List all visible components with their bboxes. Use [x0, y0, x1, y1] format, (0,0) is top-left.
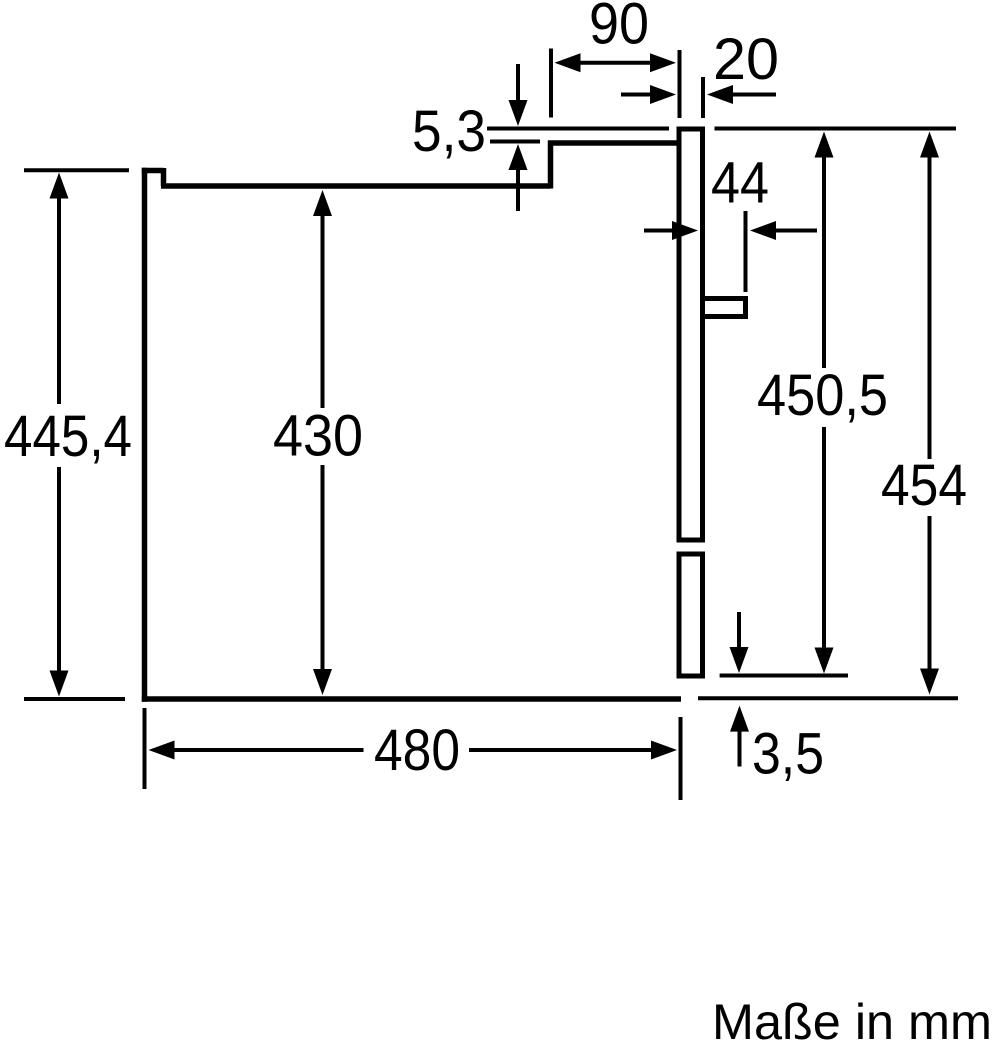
arrowhead 445,4 up — [50, 173, 69, 199]
ext line 480 left — [143, 708, 147, 789]
ext line 20 right — [701, 77, 705, 118]
arrow shaft 20 left — [621, 93, 653, 97]
wire panel bottom — [677, 674, 706, 679]
svg-text:5,3: 5,3 — [412, 99, 486, 164]
svg-text:20: 20 — [713, 27, 779, 92]
arrowhead 450,5 down — [815, 648, 834, 674]
wire panel left lower — [677, 554, 682, 676]
svg-text:3,5: 3,5 — [752, 722, 824, 787]
wire raised top edge — [548, 140, 678, 146]
dim line 454 upper seg — [928, 155, 932, 459]
arrowhead 454 down — [920, 669, 939, 695]
arrow shaft 44 right — [774, 229, 817, 233]
wire lower strip top — [677, 552, 706, 557]
arrowhead 480 left — [149, 741, 175, 760]
dim line 90 — [578, 61, 652, 65]
svg-text:430: 430 — [273, 404, 363, 469]
leader bottom right — [698, 696, 958, 700]
arrowhead 20 left-pointing-right — [650, 85, 676, 104]
svg-text:450,5: 450,5 — [757, 363, 888, 428]
arrowhead 44 pointing-left — [750, 221, 776, 240]
arrowhead 430 up — [313, 190, 332, 216]
ext line 90/20 mid — [678, 50, 682, 118]
arrowhead 3,5 down — [730, 647, 749, 673]
arrow shaft 3,5 down — [737, 612, 741, 650]
wire notch top — [142, 168, 164, 174]
arrowhead 454 up — [920, 132, 939, 158]
ext line 90 left — [549, 49, 553, 118]
latch — [705, 296, 746, 301]
arrow shaft 20 right — [731, 93, 776, 97]
wire panel right upper — [700, 127, 705, 541]
arrowheads — [50, 53, 940, 759]
arrow shaft 44 left — [644, 229, 674, 233]
arrowhead 480 right — [651, 741, 677, 760]
arrowhead 20 right-pointing-left — [707, 85, 733, 104]
wire top edge — [161, 183, 551, 189]
wire left edge — [142, 168, 148, 702]
ext line 480 right — [679, 717, 683, 800]
leader 3,5 upper — [720, 674, 848, 678]
door panel — [677, 127, 746, 677]
wire notch right — [161, 168, 167, 186]
arrowhead 430 down — [313, 669, 332, 695]
cabinet outline — [142, 141, 681, 702]
arrowhead 90 left — [555, 53, 581, 72]
dim line 445,4 lower seg — [57, 467, 61, 672]
leader 5,3 upper — [487, 127, 669, 131]
wire bottom edge — [142, 696, 681, 702]
arrowhead 5,3 up — [509, 144, 528, 170]
arrowhead 450,5 up — [815, 132, 834, 158]
dim line 454 lower seg — [928, 516, 932, 671]
arrowhead 5,3 down — [509, 100, 528, 126]
svg-text:480: 480 — [374, 718, 460, 783]
arrowhead 44 pointing-right — [672, 221, 698, 240]
wire panel right lower — [700, 554, 705, 676]
leader top right — [715, 127, 957, 131]
arrow shaft 5,3 down — [516, 64, 520, 102]
dimension labels — [4, 0, 967, 787]
ext line 44 (latch) — [744, 211, 748, 292]
dim line 430 lower seg — [321, 465, 325, 671]
dim line 450,5 upper seg — [822, 155, 826, 368]
svg-text:90: 90 — [589, 0, 649, 56]
dim line 445,4 upper seg — [57, 196, 61, 404]
svg-text:44: 44 — [711, 151, 769, 216]
wire door bottom — [677, 538, 706, 543]
arrow shaft 5,3 up — [516, 168, 520, 211]
thin dimension lines — [24, 49, 958, 801]
dim line 450,5 lower seg — [822, 427, 826, 650]
dim line 480 left seg — [172, 748, 364, 752]
arrowhead 445,4 down — [50, 671, 69, 697]
svg-text:Maße in mm: Maße in mm — [712, 994, 992, 1046]
wire panel left upper — [677, 127, 682, 541]
wire step up — [548, 141, 554, 189]
svg-text:445,4: 445,4 — [4, 404, 132, 469]
ext line top-left (445,4 top) — [24, 168, 129, 172]
arrowhead 90 right — [650, 53, 676, 72]
leader 5,3 lower — [490, 140, 540, 144]
svg-text:454: 454 — [881, 453, 967, 518]
dim line 480 right seg — [469, 748, 653, 752]
arrow shaft 3,5 up — [738, 728, 742, 767]
ext line bottom-left (445,4 bottom) — [24, 697, 125, 701]
wire panel top — [677, 127, 706, 132]
arrowhead 3,5 up — [730, 706, 749, 732]
dim line 430 upper seg — [321, 214, 325, 408]
